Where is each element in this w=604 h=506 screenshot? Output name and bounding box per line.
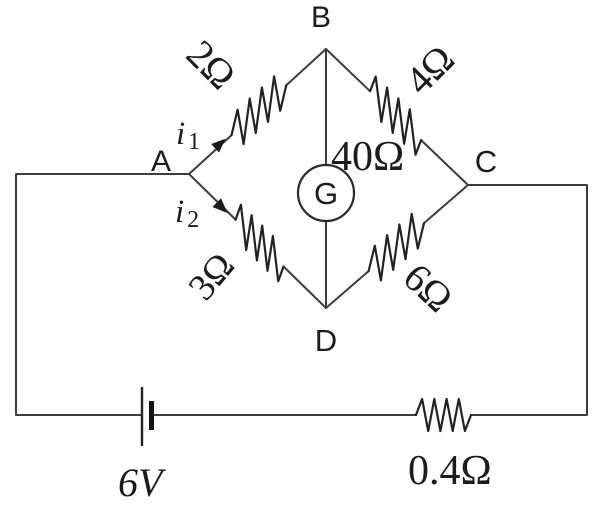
wire B to resistor 4ohm (326, 49, 370, 91)
svg-text:2Ω: 2Ω (178, 31, 245, 98)
svg-text:A: A (151, 145, 171, 178)
svg-text:i2: i2 (175, 194, 199, 233)
wire A to resistor 2ohm (189, 135, 232, 174)
svg-text:6V: 6V (118, 460, 167, 505)
wire B to galvanometer (325, 49, 327, 165)
svg-text:i1: i1 (176, 116, 200, 155)
wire resistor 2ohm to B (286, 49, 326, 85)
wire resistor 3ohm to D (284, 267, 327, 309)
resistor R3 3ohm zigzag (arm A-D) (236, 205, 284, 281)
battery V1 6V long plate (141, 387, 143, 446)
wire galvanometer to D (325, 221, 327, 308)
svg-text:4Ω: 4Ω (396, 36, 463, 103)
wire resistor 0.4 to right rail up to C (468, 185, 587, 415)
wire resistor 4ohm to C (421, 140, 468, 185)
svg-text:G: G (314, 176, 338, 211)
svg-text:40Ω: 40Ω (331, 134, 404, 180)
battery V1 6V short plate (149, 401, 154, 430)
svg-text:3Ω: 3Ω (180, 245, 243, 308)
current arrow i2 (212, 198, 227, 213)
svg-text:D: D (315, 323, 337, 358)
svg-text:C: C (475, 144, 497, 179)
svg-text:0.4Ω: 0.4Ω (408, 448, 492, 494)
wire A to left rail (16, 174, 189, 415)
svg-text:6Ω: 6Ω (395, 254, 462, 321)
galvanometer U1 circle (298, 165, 354, 221)
resistor R1 2ohm zigzag (arm A-B) (232, 76, 287, 144)
resistor R5 0.4ohm zigzag (bottom wire) (416, 399, 471, 431)
resistor R2 4ohm zigzag (arm B-C) (370, 77, 421, 155)
current arrow i1 (211, 139, 225, 153)
wire battery to bottom-mid (153, 414, 416, 416)
resistor R4 6ohm zigzag (arm D-C) (369, 214, 424, 281)
wire D to resistor 6ohm (326, 271, 369, 308)
wire resistor 6ohm to C (424, 185, 468, 223)
wire A to resistor 3ohm (189, 174, 236, 220)
svg-text:B: B (311, 1, 331, 34)
